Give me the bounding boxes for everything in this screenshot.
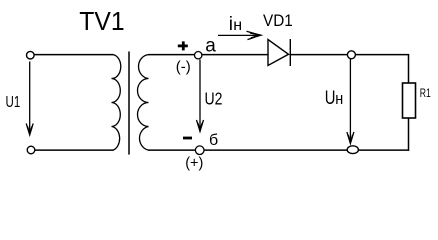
svg-text:н: н (233, 17, 242, 34)
transformer TV1 primary winding (112, 55, 121, 151)
svg-text:н: н (335, 90, 343, 108)
node b (195, 146, 204, 155)
wire diode cathode to output terminal (290, 54, 347, 56)
node a (195, 52, 202, 59)
terminal primary bottom (27, 146, 35, 154)
label Un (325, 87, 343, 108)
label plus at node a (178, 41, 188, 50)
wire secondary top to node a (149, 54, 195, 56)
arrow U1 (26, 62, 33, 135)
transformer core (128, 52, 130, 154)
terminal output bottom (347, 146, 358, 154)
resistor R1 (403, 83, 416, 118)
terminal output top (347, 51, 355, 59)
svg-text:VD1: VD1 (263, 11, 293, 30)
transformer TV1 secondary winding (138, 55, 149, 151)
svg-text:TV1: TV1 (79, 7, 124, 36)
wire node a to diode anode (202, 54, 268, 56)
svg-text:(+): (+) (185, 155, 203, 171)
wire output terminal to right corner (355, 54, 408, 56)
svg-text:U: U (325, 87, 336, 108)
wire right side down to resistor (408, 55, 410, 83)
svg-text:U1: U1 (6, 92, 21, 110)
label minus at node b (183, 137, 192, 140)
svg-text:i: i (229, 14, 233, 35)
wire bottom right corner to bottom terminal (359, 149, 409, 151)
wire bottom terminal to node b (204, 149, 347, 151)
arrow iH current (218, 31, 260, 39)
wire node b to secondary bottom (149, 149, 196, 151)
svg-text:б: б (209, 132, 218, 149)
diode VD1 (268, 39, 290, 66)
arrow U2 (197, 60, 204, 131)
wire bottom-left from primary terminal to winding (34, 149, 113, 151)
wire top-left from primary terminal to winding (34, 54, 113, 56)
svg-text:a: a (205, 36, 216, 57)
wire resistor bottom to corner (408, 118, 410, 150)
arrow Un load voltage (347, 59, 354, 143)
terminal primary top (27, 51, 35, 59)
svg-text:R1: R1 (420, 88, 431, 100)
svg-text:U2: U2 (205, 89, 223, 109)
svg-text:(-): (-) (176, 58, 191, 75)
